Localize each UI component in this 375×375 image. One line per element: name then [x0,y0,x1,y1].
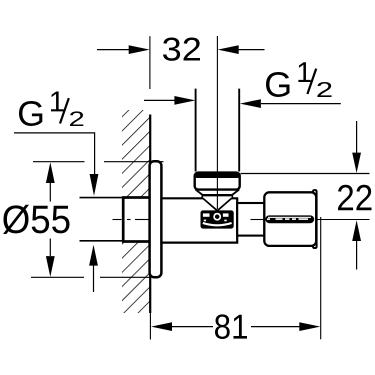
handle rim [313,190,317,248]
nipple boss through wall [123,198,151,242]
body outline [162,198,238,242]
main axis centerline left of handle [251,219,267,221]
dimension G1/2 left [14,92,98,293]
dimension 22 [241,121,372,270]
wall [149,115,151,314]
nut thick top face [194,173,240,178]
dimension 32 [97,38,265,61]
label plate with logo [201,210,234,228]
handle knob [264,192,316,246]
wire extension line of wall down (dim 81) [149,313,151,340]
neck between body and handle [237,203,264,236]
main axis centerline right of handle [317,219,370,221]
valve body fill [162,189,241,243]
collar sides [201,195,203,198]
wall hatching [122,110,150,313]
collar under nut [202,194,233,196]
centerline of inlet [113,219,150,221]
flange escutcheon O55 [150,161,162,277]
outlet centerline (also 32 extension) [216,36,218,209]
dimension O55 [3,162,164,278]
outlet pipe G1/2 [195,89,197,172]
wire extension line of wall up (dim 32) [149,36,151,89]
handle slot [265,215,314,223]
funnel V into body [203,198,217,210]
node G1/2 inlet thread pipe [80,198,125,241]
dimension 81 [151,217,321,339]
union nut on outlet [195,173,240,190]
dimension G1/2 top right [144,62,341,108]
taper under union nut [196,190,203,196]
